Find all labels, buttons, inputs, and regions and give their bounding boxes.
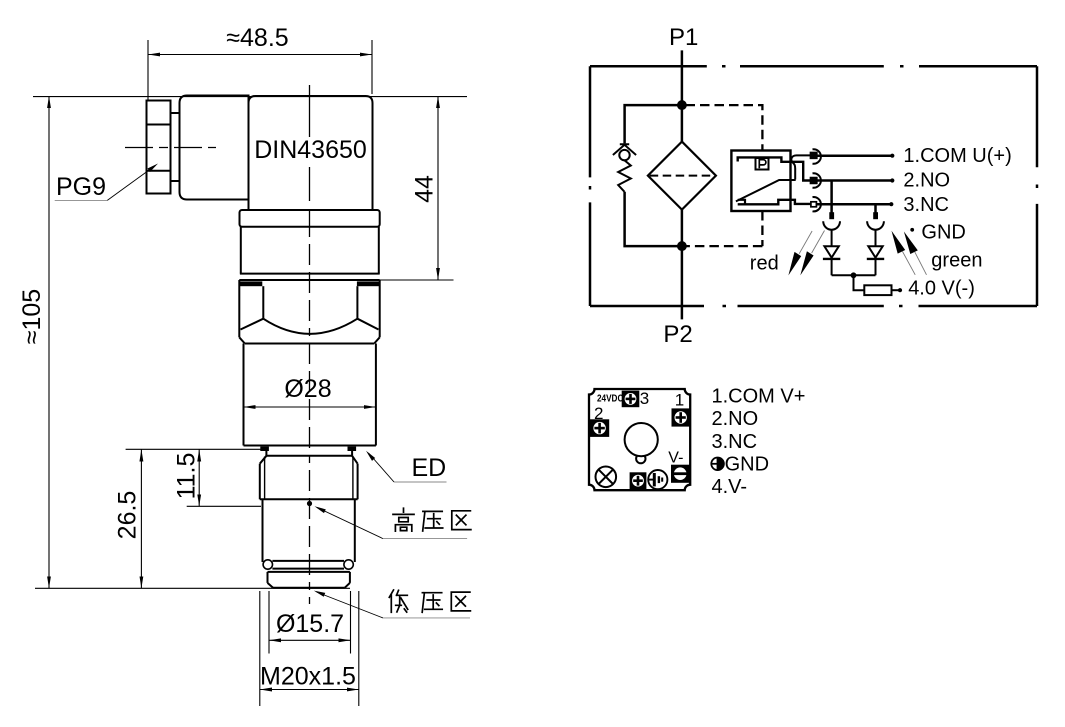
mid cylinder	[239, 227, 379, 280]
terminal screw 1	[672, 409, 689, 426]
svg-text:3.NC: 3.NC	[712, 431, 758, 453]
PG9 leader	[55, 162, 160, 201]
dashed control rectangle	[686, 105, 763, 246]
earth ground circle symbol	[648, 470, 667, 489]
contact 1 plug	[811, 153, 817, 158]
red LED D1	[823, 230, 840, 275]
schematic enclosure border (phantom line)	[590, 66, 1037, 306]
svg-text:3.NC: 3.NC	[903, 194, 949, 216]
high pressure zone leader	[314, 504, 467, 538]
svg-text:DIN43650: DIN43650	[254, 136, 367, 164]
check valve V1	[613, 144, 636, 160]
svg-text:≈105: ≈105	[18, 289, 46, 344]
svg-text:V-: V-	[668, 449, 683, 466]
pressure switch box S1	[731, 151, 790, 212]
schematic texts	[663, 24, 1011, 348]
keyway small circle	[636, 454, 645, 463]
svg-text:4.0 V(-): 4.0 V(-)	[908, 278, 975, 300]
terminal screw 3	[622, 391, 639, 407]
node junction P1	[678, 101, 685, 108]
gland step	[171, 113, 180, 181]
connector plate outline	[589, 389, 690, 490]
dimension 26.5	[140, 449, 142, 588]
horizontal centerline	[125, 147, 216, 149]
glyph 区	[452, 511, 471, 530]
svg-text:2.NO: 2.NO	[903, 170, 950, 192]
red LED light rays	[788, 231, 824, 276]
label 高压区 (high pressure zone) drawn glyphs	[393, 508, 471, 531]
mechanical drawing texts	[18, 24, 446, 691]
bottom center screw	[630, 473, 646, 489]
dimension ~105	[33, 96, 467, 588]
glyph 区	[451, 592, 470, 611]
svg-text:24VDC: 24VDC	[597, 393, 624, 404]
svg-text:11.5: 11.5	[173, 453, 201, 500]
label 低压区 (low pressure zone) drawn glyphs	[389, 590, 470, 612]
spring	[618, 160, 631, 192]
dimension M20x1.5	[260, 591, 359, 706]
terminal screw 2	[591, 420, 609, 437]
svg-text:green: green	[931, 250, 982, 272]
node junction P2	[678, 242, 685, 249]
svg-text:1: 1	[675, 390, 684, 409]
switch top conductor (NO) out to contact 2	[738, 157, 811, 180]
ED leader	[364, 449, 446, 482]
connector texts	[594, 389, 684, 466]
green LED branch wire	[874, 204, 877, 213]
contact 3 plug (open)	[811, 202, 817, 207]
seal bands	[239, 281, 380, 286]
Ø28 cylinder	[244, 344, 376, 446]
dashed line through diamond	[650, 175, 714, 177]
DIN43650 housing block	[249, 96, 373, 211]
glyph 高	[393, 508, 414, 531]
svg-text:M20x1.5: M20x1.5	[260, 663, 356, 691]
glyph 压	[423, 511, 443, 531]
vertical centerline lower	[309, 216, 311, 604]
green LED light rays	[892, 231, 927, 275]
dimension Ø28	[244, 406, 376, 408]
dimension Ø15.7	[269, 591, 351, 654]
high pressure port dot	[307, 501, 312, 506]
red LED socket plug	[829, 212, 834, 219]
contact 2 socket	[813, 173, 821, 187]
vertical centerline upper	[309, 85, 311, 137]
GND leader dot	[910, 228, 914, 232]
wire to 2.NO	[816, 179, 891, 182]
dimension ~48.5	[148, 40, 372, 100]
hex wrench section	[239, 280, 379, 344]
connector left block	[180, 96, 249, 200]
svg-text:Ø15.7: Ø15.7	[276, 610, 344, 638]
LED common wire	[832, 275, 876, 290]
o-ring groove	[263, 560, 353, 569]
svg-text:26.5: 26.5	[114, 491, 142, 540]
central plug hole	[625, 423, 658, 456]
contact 2 plug	[811, 178, 817, 183]
switch bottom conductor (NC) out to contact 3	[738, 200, 811, 205]
terminal screw V-	[672, 465, 690, 482]
svg-text:4.V-: 4.V-	[712, 476, 748, 498]
svg-text:ED: ED	[412, 454, 447, 482]
dimension 44	[380, 96, 454, 280]
P sensing element box	[756, 158, 769, 170]
green LED socket plug	[873, 212, 878, 219]
CONNECTOR LEGEND	[712, 386, 806, 499]
lamp symbol	[596, 467, 617, 488]
svg-text:2: 2	[594, 404, 603, 423]
svg-text:3: 3	[640, 389, 649, 408]
green LED D2	[867, 230, 884, 275]
legend earth symbol	[711, 458, 724, 471]
bottom tip	[268, 572, 350, 588]
wire P1	[681, 50, 684, 141]
svg-text:GND: GND	[725, 453, 769, 475]
differential pressure element (diamond)	[648, 142, 716, 210]
lower cylinder	[263, 499, 355, 562]
svg-text:≈48.5: ≈48.5	[226, 24, 288, 52]
wire left branch	[625, 105, 682, 246]
switch moving arm (COM)	[736, 180, 796, 201]
glyph 压	[422, 593, 442, 613]
svg-text:1.COM U(+): 1.COM U(+)	[903, 145, 1011, 167]
red LED branch wire	[830, 181, 833, 214]
svg-text:2.NO: 2.NO	[712, 408, 759, 430]
dimension 11.5	[126, 449, 261, 506]
centerlines	[125, 85, 310, 604]
contact 1 socket	[813, 149, 821, 163]
red LED socket cup	[823, 221, 840, 229]
svg-text:44: 44	[411, 175, 439, 203]
svg-text:GND: GND	[921, 222, 965, 244]
svg-text:PG9: PG9	[56, 173, 106, 201]
COM wire hop to contact 1	[791, 155, 811, 179]
green LED socket cup	[867, 221, 884, 229]
low pressure zone leader	[313, 589, 470, 618]
glyph 低	[389, 590, 407, 612]
svg-text:P1: P1	[669, 24, 698, 51]
contact 3 socket	[813, 197, 821, 211]
ELECTRICAL SCHEMATIC	[590, 50, 1037, 319]
CONNECTOR FACE VIEW	[589, 389, 690, 490]
junction dot	[851, 272, 857, 278]
svg-text:P2: P2	[663, 321, 692, 348]
wire to 4.0 V(-)	[892, 289, 899, 291]
ED seal nubs	[260, 447, 356, 451]
resistor R1	[864, 285, 891, 295]
bottom extension line	[35, 587, 350, 589]
M20 thread section	[260, 456, 358, 500]
wire to 3.NC	[816, 203, 890, 206]
contact pad on bottom conductor	[738, 200, 745, 205]
wire P2	[681, 210, 684, 320]
neck	[266, 448, 352, 456]
svg-text:Ø28: Ø28	[284, 375, 331, 403]
PG9 gland nut	[147, 101, 171, 194]
wire to 1.COM	[816, 154, 891, 157]
svg-text:1.COM V+: 1.COM V+	[712, 386, 806, 408]
svg-text:red: red	[750, 253, 779, 275]
housing flange	[240, 210, 380, 227]
